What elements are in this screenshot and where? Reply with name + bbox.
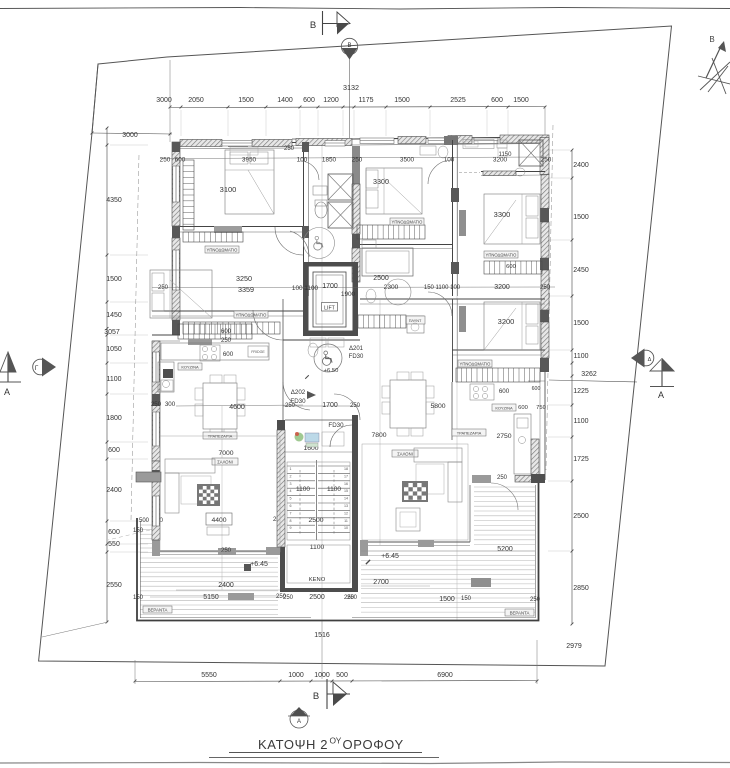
svg-text:250: 250	[530, 597, 541, 603]
svg-text:500: 500	[139, 518, 150, 524]
svg-text:5200: 5200	[497, 546, 513, 553]
svg-text:+6.45: +6.45	[250, 561, 268, 568]
svg-text:ΣΑΛΟΝΙ: ΣΑΛΟΝΙ	[217, 459, 233, 464]
svg-text:5550: 5550	[201, 672, 217, 679]
svg-text:3000: 3000	[156, 97, 172, 104]
svg-text:6900: 6900	[437, 672, 453, 679]
svg-text:10: 10	[344, 526, 348, 530]
svg-text:600: 600	[303, 97, 315, 104]
svg-text:4: 4	[290, 489, 292, 493]
svg-text:2850: 2850	[573, 585, 589, 592]
svg-text:600: 600	[499, 388, 510, 395]
svg-text:1050: 1050	[106, 346, 122, 353]
svg-text:250: 250	[283, 595, 294, 601]
svg-text:2450: 2450	[573, 267, 589, 274]
svg-text:12: 12	[344, 511, 348, 515]
svg-text:15: 15	[344, 489, 348, 493]
svg-text:150: 150	[133, 595, 144, 601]
svg-text:2979: 2979	[566, 643, 582, 650]
svg-text:600: 600	[108, 447, 120, 454]
svg-text:250: 250	[160, 157, 171, 164]
svg-text:250: 250	[352, 157, 363, 164]
svg-text:+6.45: +6.45	[381, 553, 399, 560]
svg-text:250: 250	[151, 401, 162, 408]
svg-text:ΤΡΑΠΕΖΑΡΙΑ: ΤΡΑΠΕΖΑΡΙΑ	[457, 430, 482, 435]
svg-text:ΥΠΝΟΔΩΜΑΤΙΟ: ΥΠΝΟΔΩΜΑΤΙΟ	[486, 252, 518, 257]
svg-text:250: 250	[541, 157, 552, 164]
svg-text:9: 9	[290, 526, 292, 530]
svg-text:14: 14	[344, 497, 348, 501]
svg-text:1175: 1175	[358, 97, 373, 104]
svg-text:1900: 1900	[341, 291, 356, 298]
svg-text:Β: Β	[310, 20, 316, 31]
svg-text:ΚΟΥΖΙΝΑ: ΚΟΥΖΙΝΑ	[495, 405, 513, 410]
svg-text:2: 2	[290, 474, 292, 478]
svg-text:1100: 1100	[106, 376, 121, 383]
svg-text:FD30: FD30	[349, 354, 364, 360]
svg-text:500: 500	[336, 672, 348, 679]
svg-text:2500: 2500	[308, 517, 323, 524]
svg-text:ΚΕΝΟ: ΚΕΝΟ	[309, 577, 326, 583]
svg-text:600: 600	[108, 529, 120, 536]
svg-text:1500: 1500	[513, 97, 529, 104]
svg-text:2400: 2400	[218, 582, 234, 589]
svg-text:600: 600	[506, 264, 516, 270]
svg-text:100: 100	[297, 157, 308, 164]
svg-text:250: 250	[221, 548, 232, 554]
svg-text:2525: 2525	[450, 97, 466, 104]
svg-text:550: 550	[108, 541, 120, 548]
svg-text:Α: Α	[4, 387, 10, 397]
svg-text:2500: 2500	[309, 594, 325, 601]
svg-text:1500: 1500	[573, 214, 589, 221]
svg-text:250: 250	[347, 595, 358, 601]
svg-text:Β: Β	[313, 691, 319, 702]
svg-text:3132: 3132	[343, 83, 359, 92]
svg-text:Α: Α	[658, 390, 664, 400]
svg-text:ΥΠΝΟΔΩΜΑΤΙΟ: ΥΠΝΟΔΩΜΑΤΙΟ	[207, 247, 239, 252]
svg-text:4400: 4400	[211, 517, 226, 524]
svg-text:6: 6	[290, 504, 292, 508]
svg-text:1850: 1850	[322, 157, 337, 164]
svg-text:2050: 2050	[188, 97, 204, 104]
svg-text:3300: 3300	[373, 177, 389, 186]
svg-text:300: 300	[165, 401, 176, 408]
svg-text:1500: 1500	[238, 97, 254, 104]
svg-text:1500: 1500	[106, 276, 122, 283]
svg-text:4350: 4350	[106, 197, 122, 204]
svg-text:ΚΑΤΟΨΗ 2: ΚΑΤΟΨΗ 2	[258, 737, 328, 752]
svg-text:7: 7	[290, 511, 292, 515]
svg-text:1725: 1725	[573, 456, 589, 463]
svg-text:600: 600	[518, 405, 528, 411]
svg-text:ΣΑΛΟΝΙ: ΣΑΛΟΝΙ	[397, 451, 413, 456]
svg-text:ΠΛΥΝΤ: ΠΛΥΝΤ	[409, 319, 422, 323]
svg-text:3262: 3262	[581, 371, 597, 378]
svg-text:1500: 1500	[573, 320, 589, 327]
svg-text:ΥΠΝΟΔΩΜΑΤΙΟ: ΥΠΝΟΔΩΜΑΤΙΟ	[236, 312, 268, 317]
svg-text:1100: 1100	[573, 353, 588, 360]
svg-text:Α: Α	[297, 719, 301, 725]
svg-text:ΒΕΡΑΝΤΑ: ΒΕΡΑΝΤΑ	[148, 607, 168, 612]
svg-text:Β: Β	[709, 35, 714, 44]
svg-text:3000: 3000	[122, 132, 138, 139]
svg-text:+6.50: +6.50	[324, 368, 339, 374]
svg-text:ΚΟΥΖΙΝΑ: ΚΟΥΖΙΝΑ	[181, 364, 199, 369]
svg-text:Β: Β	[347, 43, 351, 49]
svg-text:1: 1	[290, 467, 292, 471]
svg-text:1225: 1225	[573, 388, 589, 395]
svg-text:250: 250	[158, 285, 169, 291]
svg-text:600: 600	[221, 329, 232, 335]
svg-text:Γ: Γ	[35, 365, 39, 372]
svg-text:LIFT: LIFT	[324, 306, 335, 312]
svg-text:1100: 1100	[573, 418, 588, 425]
svg-text:3500: 3500	[400, 157, 415, 164]
svg-text:250: 250	[540, 285, 551, 291]
svg-text:18: 18	[344, 467, 348, 471]
svg-text:2500: 2500	[573, 513, 589, 520]
svg-text:1200: 1200	[323, 97, 339, 104]
svg-text:17: 17	[344, 474, 348, 478]
svg-text:100 1100: 100 1100	[292, 285, 319, 292]
svg-text:1100: 1100	[296, 486, 310, 493]
svg-text:Δ201: Δ201	[349, 346, 364, 352]
svg-text:FRIDGE: FRIDGE	[251, 350, 265, 354]
svg-text:600: 600	[532, 386, 541, 392]
svg-text:250: 250	[284, 146, 295, 152]
svg-text:5150: 5150	[203, 594, 219, 601]
svg-text:ΥΠΝΟΔΩΜΑΤΙΟ: ΥΠΝΟΔΩΜΑΤΙΟ	[460, 361, 492, 366]
svg-text:1700: 1700	[322, 283, 338, 290]
svg-text:3200: 3200	[494, 284, 510, 291]
svg-text:FD30: FD30	[328, 422, 344, 429]
svg-text:600: 600	[223, 351, 234, 358]
svg-text:2400: 2400	[106, 487, 122, 494]
svg-text:5800: 5800	[430, 403, 445, 410]
svg-text:8: 8	[290, 519, 292, 523]
svg-text:750: 750	[536, 405, 546, 411]
svg-text:ΒΕΡΑΝΤΑ: ΒΕΡΑΝΤΑ	[510, 610, 530, 615]
svg-text:1000: 1000	[288, 672, 304, 679]
svg-text:150: 150	[461, 596, 472, 602]
svg-text:3950: 3950	[242, 157, 257, 164]
svg-text:1500: 1500	[394, 97, 410, 104]
svg-text:1450: 1450	[106, 312, 122, 319]
svg-text:3: 3	[290, 482, 292, 486]
svg-text:ΟΥ: ΟΥ	[330, 736, 342, 746]
svg-text:3359: 3359	[238, 285, 254, 294]
svg-text:2700: 2700	[373, 579, 389, 586]
svg-text:1700: 1700	[322, 402, 338, 409]
svg-text:Δ: Δ	[648, 357, 652, 363]
svg-text:150: 150	[133, 528, 144, 534]
svg-text:3100: 3100	[220, 185, 237, 194]
svg-text:ΥΠΝΟΔΩΜΑΤΙΟ: ΥΠΝΟΔΩΜΑΤΙΟ	[392, 219, 424, 224]
svg-text:2550: 2550	[106, 582, 122, 589]
svg-text:1800: 1800	[106, 415, 122, 422]
svg-text:7000: 7000	[218, 450, 233, 457]
svg-text:1500: 1500	[439, 596, 455, 603]
svg-text:16: 16	[344, 482, 348, 486]
svg-text:250: 250	[497, 475, 508, 481]
svg-text:2400: 2400	[573, 162, 589, 169]
svg-text:13: 13	[344, 504, 348, 508]
svg-text:600: 600	[491, 97, 503, 104]
svg-text:3250: 3250	[236, 274, 252, 283]
svg-text:1100: 1100	[327, 486, 341, 493]
svg-text:1400: 1400	[277, 97, 293, 104]
svg-text:150 1100 100: 150 1100 100	[424, 285, 461, 291]
svg-text:ΟΡΟΦΟΥ: ΟΡΟΦΟΥ	[343, 737, 404, 752]
svg-text:7800: 7800	[371, 432, 386, 439]
svg-text:11: 11	[344, 519, 348, 523]
svg-text:5: 5	[290, 497, 292, 501]
svg-text:Δ202: Δ202	[291, 389, 306, 396]
svg-text:2750: 2750	[496, 433, 511, 440]
